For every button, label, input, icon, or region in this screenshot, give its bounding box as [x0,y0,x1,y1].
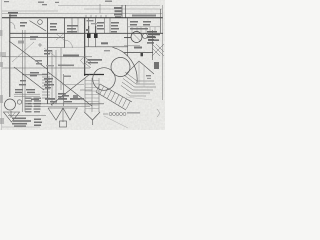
big X diagonal 1 [48,72,92,106]
wall x95 with column [95,18,97,47]
entry dark post [154,62,159,69]
entry tent chevron [126,61,154,74]
wall y52 right [124,52,153,54]
diagonal stair treads [96,84,130,109]
footing square [60,121,67,127]
paper edge bottom smudge [0,52,6,57]
room label 4 [111,22,119,33]
stem below circle [10,111,12,118]
triangle symbol [4,112,20,122]
tick left [9,14,11,18]
small circle right [143,34,148,39]
interior wall x64 [64,18,66,48]
wall y37 [10,37,65,39]
dimension tick marks [86,15,106,18]
wall y47 [85,46,128,48]
wall y57 [2,56,92,58]
faint diagonal bottom [104,116,128,128]
escalator hatch mid [86,58,91,68]
label cluster mid-left band [19,72,54,88]
diagonal stair band edge 2 [96,92,126,110]
small labels x86-96 [87,20,94,21]
dimension line top A [58,5,160,7]
ledge y84 [62,84,84,86]
bottom dim line 2 [28,106,90,108]
stair flight vertical rails [85,78,99,112]
wall x152 [152,30,154,60]
dimension line y68 [2,67,90,69]
main center wall [84,18,86,76]
interior wall x47 [47,18,49,104]
room label 1 [50,23,57,31]
diagonal stair band edge 1 [100,84,132,102]
dimension text top-left [8,12,18,16]
door diagonal room1 [30,21,47,31]
big X diagonal 2 [51,74,90,105]
dark label right of circles boost [147,31,160,44]
interior wall x56 [55,50,57,104]
small diagonal mid [44,48,56,57]
paper edge left [1,0,3,130]
dark wall y74 [84,74,104,76]
riser label block [114,5,126,18]
annotation bottom [103,113,126,116]
ramp diagonal D1 [9,41,47,69]
wall x127 [127,18,129,56]
faint text right bottom [127,112,140,114]
balcony arc [113,47,138,83]
left exterior wall [9,18,11,97]
room label 5 [130,21,151,30]
small circle room1 [38,20,43,25]
interior wall x61 [60,48,62,90]
ramp diagonal D3 [12,42,34,62]
wall x104 [104,18,106,33]
dark blob 18-24,40-44 [18,41,24,44]
main horizontal wall y33 [10,32,163,34]
interior wall x72 [71,18,73,33]
dimension line top D [2,13,162,15]
bottom dim line 1 [28,103,104,105]
table lines y94-96 [14,93,40,95]
marks 35-45,59-65 [35,60,42,65]
hall label [20,22,27,27]
dimension line top C [2,10,58,12]
ramp diagonal D2 [14,67,44,90]
dark marks 72-78,92-99 [73,95,78,99]
truss W [48,108,77,120]
label bottom-left 2 [12,118,42,127]
wall x88 with column [88,18,90,47]
column circle right [131,32,142,43]
faint line y127 [2,126,40,128]
faint ground line [126,97,152,100]
small mark far right [157,109,160,117]
dimension text top-right [132,15,156,17]
door diamond mid [81,56,89,65]
vertical stub x100 [99,4,101,13]
door marks left wall [10,22,15,29]
room number 201 [101,42,108,44]
dimension line top B [84,8,162,10]
room label 3 [97,22,104,30]
spiral stair circle B [111,58,130,77]
interior wall x52 [51,50,53,106]
interior wall x78 [77,18,79,33]
label under X [58,93,66,98]
wall y47 left [48,47,65,49]
label rows above table [15,89,35,93]
label column bottom-left [25,98,42,113]
top edge text specks [4,1,112,6]
wc circle bottom-left [5,99,16,110]
room label 2 [67,25,78,33]
label under circle [134,47,142,49]
dark post x63 [63,74,65,106]
wall x110 [109,18,111,33]
tent center post [138,61,140,84]
corridor label [30,36,38,38]
stair treads [85,81,99,109]
dim text row y98 extras [31,95,84,100]
closet row divider [128,26,160,28]
corridor wall pair [22,30,24,112]
wall band y74 mid-left [22,74,48,76]
closet verticals [132,27,155,33]
dim text above y68 [58,65,74,67]
plus-level mark [146,75,151,76]
marks near 40,47 [38,43,42,47]
left edge smudges [0,30,4,124]
label right of circles [148,33,156,40]
spiral stair circle A [93,68,116,91]
left stair treads [42,74,50,98]
entry steps [125,72,154,81]
bottom dim text row [45,98,80,102]
dim line y115 [8,115,46,117]
hatch cross right [152,44,164,56]
right exterior wall [160,9,162,33]
label near stairs mid [88,59,102,63]
door cross corridor [56,34,64,41]
small circle bottom-left [17,100,21,104]
label center [44,50,79,56]
stair V converge [84,112,92,120]
main top wall [2,17,163,19]
ledge y90 [80,89,92,91]
truss post [62,108,64,122]
door arc room2 [65,40,73,48]
